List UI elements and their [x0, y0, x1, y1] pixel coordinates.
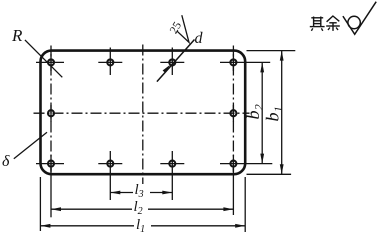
- arrow d leader: [163, 65, 171, 73]
- roughness symbol (rest): check with circle: [343, 2, 376, 35]
- hole bottom-right: [230, 161, 236, 167]
- hole bottom inner-right: [169, 161, 175, 167]
- arrow b2 top: [260, 62, 264, 72]
- centerline: left hole column vertical: [50, 46, 52, 172]
- extension line: top edge for b1: [247, 50, 296, 52]
- centerline: middle row horizontal axis: [34, 112, 250, 114]
- hole top inner-right (d): [169, 59, 175, 65]
- hole top inner-left: [107, 59, 113, 65]
- hole middle-right: [230, 110, 236, 116]
- character qi: [310, 17, 325, 31]
- centerline: bottom inner-right hole cross: [160, 163, 184, 165]
- hole top-left: [48, 59, 54, 65]
- arrow b2 bottom: [260, 154, 264, 164]
- leader line delta: [14, 132, 47, 158]
- centerline: central vertical axis: [142, 45, 144, 185]
- arrow l3 left: [110, 191, 120, 195]
- dimension line l2 right part: [148, 208, 233, 210]
- dimension line l2 left part: [51, 208, 132, 210]
- dimension line l3 left part: [110, 192, 133, 194]
- centerline: solid arms at corner-column holes: [50, 54, 52, 71]
- dimension line b1: [281, 51, 283, 175]
- centerline: bottom inner-left hole cross: [98, 163, 122, 165]
- extension line: right bottom hole for l2: [232, 168, 234, 215]
- arrow l2 left: [51, 207, 61, 211]
- arrow b1 bottom: [280, 164, 284, 174]
- arrow l1 right: [235, 224, 245, 228]
- hole middle-left: [48, 110, 54, 116]
- centerline: bottom-right hole horizontal arm: [220, 163, 272, 165]
- arrowheads: [40, 51, 283, 228]
- leader line R: [25, 40, 62, 77]
- hole bottom-left: [48, 161, 54, 167]
- svg-text:R: R: [11, 26, 23, 45]
- extension line: left edge for l1: [39, 177, 41, 231]
- roughness symbol 25 on d leader: [177, 15, 189, 42]
- centerline: top inner-right hole cross: [160, 61, 184, 63]
- leader line d: [157, 40, 195, 82]
- arrow b1 top: [280, 51, 284, 61]
- centerline: top-right hole horizontal arm: [220, 61, 270, 63]
- centerline: bottom-left hole horizontal arm: [36, 163, 64, 165]
- extension line: bottom edge for b1: [247, 173, 292, 175]
- dimension line l1 right part: [151, 225, 245, 227]
- extension line: right edge for l1: [244, 177, 246, 232]
- plate outline (rounded rectangle): [41, 51, 246, 175]
- arrow l3 right: [162, 191, 172, 195]
- centerline: top-left hole horizontal arm: [36, 61, 64, 63]
- svg-text:δ: δ: [2, 153, 10, 170]
- extension line: left bottom hole for l2: [50, 168, 52, 217]
- holes: [48, 59, 236, 166]
- hole bottom inner-left: [107, 161, 113, 167]
- dimension line l3 right part: [150, 192, 172, 194]
- character yu: [326, 16, 340, 31]
- arrow l2 right: [223, 207, 233, 211]
- svg-text:d: d: [195, 30, 204, 47]
- centerline: right hole column vertical: [232, 46, 234, 172]
- dimension line l1 left part: [40, 225, 134, 227]
- arrow l1 left: [40, 224, 50, 228]
- note: qi-yu (rest surfaces) characters: [310, 16, 340, 31]
- hole top-right: [230, 59, 236, 65]
- centerline: top inner-left hole cross: [98, 61, 122, 63]
- dimension line b2: [261, 62, 263, 163]
